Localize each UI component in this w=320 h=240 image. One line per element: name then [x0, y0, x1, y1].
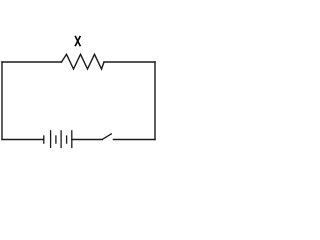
battery cell 3 short plate: [66, 136, 68, 143]
battery cell 1 short plate: [43, 136, 45, 143]
battery cell 3 long plate: [71, 131, 73, 148]
battery cell 2 long plate: [60, 131, 62, 148]
wire right side: [154, 62, 156, 140]
resistor X (zigzag): [62, 54, 105, 69]
wire left side: [1, 62, 3, 140]
wire top-right segment: [104, 61, 155, 63]
battery cell 2 short plate: [55, 136, 57, 143]
switch lever (open): [102, 134, 111, 139]
battery cell 1 long plate: [50, 131, 52, 148]
label X (resistor value): [75, 36, 80, 46]
wire switch to bottom-right corner: [113, 139, 155, 141]
wire battery to switch: [72, 139, 103, 141]
wire top-left segment: [2, 61, 62, 63]
wire bottom-left to battery: [2, 139, 44, 141]
